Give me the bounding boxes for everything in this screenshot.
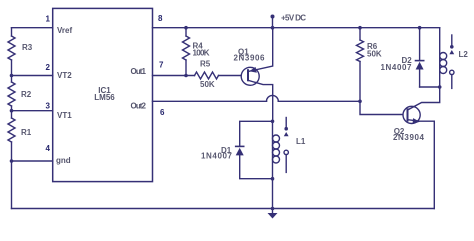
wire: pin 1 Vref: [12, 27, 53, 29]
svg-text:2N3904: 2N3904: [393, 133, 425, 142]
wire: Q1 collector node down to L1/D1: [272, 121, 274, 178]
svg-text:LM56: LM56: [94, 93, 115, 102]
diode D2 1N4007 cathode bar: [416, 60, 424, 62]
junction dot D2 top on rail: [418, 26, 422, 30]
wire: R4 top lead: [185, 28, 187, 36]
diode D1 1N4007 triangle: [236, 148, 244, 156]
relay L1 contact top lead: [285, 118, 287, 128]
wire: left rail R1 to ground rail corner: [11, 142, 13, 209]
wire: pin 2 VT2: [12, 75, 53, 77]
svg-text:50K: 50K: [367, 50, 382, 59]
junction dot pin3/R2/R1: [10, 109, 14, 113]
svg-text:L2: L2: [459, 50, 469, 59]
relay L2 contact arrow: [449, 50, 454, 54]
transistor Q2 emitter arrow (NPN, points out): [413, 118, 420, 124]
wire: pin 6 Out2 with hop over Q1 collector: [153, 100, 267, 102]
wire: R6 top lead: [359, 28, 361, 40]
transistor Q2 base bar: [407, 109, 409, 120]
relay coil L1 loops: [273, 135, 280, 142]
svg-text:VT1: VT1: [57, 111, 72, 120]
resistor R3: [8, 36, 15, 60]
wire: D1 bottom lead: [240, 155, 273, 178]
svg-text:1N4007: 1N4007: [381, 63, 413, 72]
wire: left rail x=11.5 top segment (pin1 to R3): [11, 28, 13, 36]
wire: L1 bottom to ground rail: [272, 179, 274, 209]
svg-text:Out2: Out2: [131, 102, 147, 111]
wire: D1 top lead: [240, 121, 273, 146]
wire: R5 to Q1 base: [219, 75, 249, 77]
wire: pin 7 Out1 to R5: [153, 75, 195, 77]
transistor Q1 collector: [248, 80, 273, 121]
transistor Q1 base bar: [247, 70, 249, 80]
wire: D2 bottom lead: [419, 70, 421, 88]
svg-text:+5V DC: +5V DC: [281, 14, 306, 23]
junction dot R6 top on rail: [358, 26, 362, 30]
svg-text:R1: R1: [21, 128, 32, 137]
junction dot R4/R5/Out1: [184, 74, 188, 78]
relay L1 contact arrow: [284, 132, 289, 136]
svg-text:100K: 100K: [193, 49, 210, 58]
svg-text:7: 7: [159, 61, 164, 70]
node +5V DC terminal: [272, 17, 274, 28]
junction dot D2/L2 bottom / Q2 collector: [438, 85, 442, 89]
resistor R1: [8, 118, 15, 142]
resistor R2: [8, 82, 15, 106]
transistor Q2 collector (to relay L2): [408, 87, 440, 110]
IC U1 LM56 box: [53, 8, 153, 181]
transistor Q2 emitter (to ground): [408, 120, 435, 209]
relay L2 contact lower terminal: [450, 70, 454, 74]
svg-text:1: 1: [46, 15, 51, 24]
resistor R5 50K: [195, 72, 219, 79]
svg-text:L1: L1: [296, 137, 306, 146]
svg-text:gnd: gnd: [56, 156, 71, 165]
svg-text:R3: R3: [22, 43, 33, 52]
ground symbol: [272, 209, 274, 214]
relay L2 contact top lead: [451, 35, 453, 46]
junction dot R4 top on rail: [184, 26, 188, 30]
svg-text:3: 3: [46, 102, 51, 111]
transistor Q1 2N3906 body: [241, 67, 259, 85]
svg-text:1N4007: 1N4007: [201, 152, 233, 161]
svg-text:2N3906: 2N3906: [234, 54, 266, 63]
diode D1 1N4007 cathode bar: [236, 145, 244, 147]
wire: ground rail: [12, 208, 435, 210]
wire: left rail R3 to pin2: [11, 60, 13, 82]
wire: left rail R2 to R1: [11, 106, 13, 118]
junction dot Out2/R6/Q2 base: [358, 100, 362, 104]
wire: pin 4 gnd: [12, 160, 53, 162]
wire: +5V top rail from pin 8: [153, 27, 440, 29]
svg-text:50K: 50K: [200, 80, 215, 89]
junction dot pin4/R1: [10, 159, 14, 163]
junction dot L1 top / D1 / Q1 collector: [271, 120, 275, 124]
svg-text:2: 2: [46, 63, 51, 72]
relay coil L2 lead from +5V rail: [439, 28, 441, 87]
junction dot pin2/R3/R2: [10, 74, 14, 78]
svg-text:Out1: Out1: [131, 67, 147, 76]
resistor R6 50K: [357, 40, 364, 62]
wire: Out2 node to Q2 base: [360, 101, 408, 114]
diode D2 1N4007 triangle: [416, 62, 424, 70]
svg-text:Vref: Vref: [57, 26, 72, 35]
svg-text:R2: R2: [21, 90, 32, 99]
svg-text:6: 6: [160, 108, 165, 117]
junction dot ground rail at ground symbol: [271, 207, 275, 211]
transistor Q1 emitter (to +5V): [248, 28, 273, 72]
wire: R4 bottom lead: [185, 60, 187, 76]
svg-text:8: 8: [158, 14, 163, 23]
transistor Q1 emitter arrow (PNP, points to base): [249, 67, 256, 73]
transistor Q2 2N3904 body: [403, 106, 420, 123]
wire: pin 3 VT1: [12, 110, 53, 112]
relay coil L2 loops: [440, 53, 447, 60]
svg-text:4: 4: [46, 144, 51, 153]
junction dot L1 bottom / D1: [271, 177, 275, 181]
wire: D2 top lead from +5V rail: [419, 28, 421, 61]
svg-text:VT2: VT2: [57, 71, 72, 80]
junction dot +5V stub on rail: [271, 26, 275, 30]
relay L1 contact lower terminal: [284, 150, 288, 154]
wire: D2 bottom to L2 bottom: [420, 86, 440, 88]
resistor R4 100K: [183, 36, 190, 60]
wire: R6 bottom lead: [359, 62, 361, 102]
svg-text:R5: R5: [200, 60, 211, 69]
